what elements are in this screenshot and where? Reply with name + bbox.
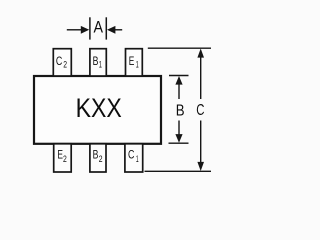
svg-text:E: E xyxy=(129,54,135,68)
label C2 on pin C2 xyxy=(56,54,67,70)
svg-text:2: 2 xyxy=(63,154,67,164)
pin E2 (bottom left lead) xyxy=(54,144,71,172)
dimension A right tick xyxy=(105,17,107,39)
svg-text:C: C xyxy=(196,102,204,119)
dimension C top extension line xyxy=(148,47,211,49)
dimension B top extension line xyxy=(169,75,189,77)
svg-text:2: 2 xyxy=(99,154,103,164)
svg-text:1: 1 xyxy=(136,59,139,69)
dimension A right arrow xyxy=(107,26,122,34)
label C1 on pin C1 xyxy=(128,148,139,164)
pin B2 (bottom middle lead) xyxy=(90,144,106,172)
svg-text:KXX: KXX xyxy=(76,93,122,123)
svg-text:A: A xyxy=(94,18,104,37)
pin B1 (top middle lead) xyxy=(90,49,106,76)
svg-text:C: C xyxy=(128,148,135,162)
label B1 on pin B1 xyxy=(93,54,102,70)
dimension A left arrow xyxy=(67,26,89,34)
dimension C bottom extension line xyxy=(145,170,212,172)
pin E1 (top right lead) xyxy=(126,49,143,76)
label E2 on pin E2 xyxy=(57,148,66,164)
svg-text:2: 2 xyxy=(63,59,67,69)
dimension C vertical line with arrows xyxy=(197,49,204,172)
dimension B bottom extension line xyxy=(169,142,189,144)
package body xyxy=(34,76,161,144)
dimension A left tick xyxy=(89,17,91,39)
svg-text:B: B xyxy=(93,54,99,68)
pin C2 (top left lead) xyxy=(53,49,71,76)
label E1 on pin E1 xyxy=(129,54,139,70)
label B2 on pin B2 xyxy=(93,148,103,164)
svg-text:B: B xyxy=(176,103,185,120)
svg-text:C: C xyxy=(56,54,63,68)
dimension B vertical line with arrows xyxy=(175,76,182,143)
pin C1 (bottom right lead) xyxy=(125,144,143,172)
svg-text:1: 1 xyxy=(136,154,139,164)
svg-text:1: 1 xyxy=(99,59,102,69)
svg-text:B: B xyxy=(93,148,99,162)
